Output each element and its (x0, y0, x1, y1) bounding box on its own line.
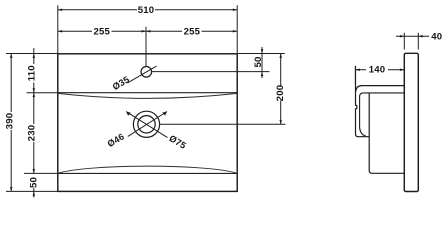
svg-text:390: 390 (4, 113, 15, 130)
svg-text:230: 230 (26, 125, 37, 142)
svg-text:140: 140 (369, 65, 386, 76)
svg-text:510: 510 (138, 5, 155, 16)
svg-text:50: 50 (253, 56, 264, 67)
svg-text:255: 255 (93, 26, 110, 37)
svg-text:110: 110 (26, 65, 37, 81)
svg-text:50: 50 (29, 177, 40, 188)
svg-text:200: 200 (275, 85, 286, 102)
svg-text:255: 255 (184, 26, 201, 37)
svg-text:40: 40 (431, 32, 442, 43)
